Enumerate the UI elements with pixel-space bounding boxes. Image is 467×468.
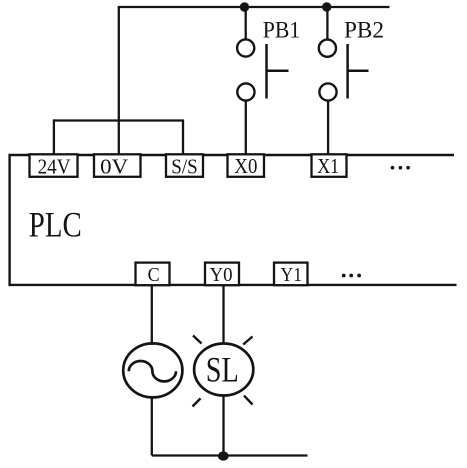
wire: lamp SL to bottom return bus bbox=[222, 396, 224, 456]
wire: vertical drop from top bus to 0V terminal bbox=[118, 7, 120, 156]
wire: AC source to bottom return bus bbox=[151, 397, 153, 455]
svg-text:S/S: S/S bbox=[171, 154, 198, 178]
terminal Y0 bbox=[205, 263, 239, 286]
terminal Y1 bbox=[274, 263, 308, 286]
junction: top bus at PB2 bbox=[322, 2, 331, 11]
svg-text:C: C bbox=[148, 264, 160, 286]
ellipsis: more input terminals bbox=[391, 166, 410, 170]
PLC enclosure bbox=[10, 155, 457, 285]
wire: bottom return bus bbox=[152, 454, 308, 456]
wire: stub from connector bus to 24V terminal bbox=[53, 119, 55, 156]
svg-text:PB2: PB2 bbox=[344, 17, 384, 42]
wire: terminal C to AC source bbox=[151, 286, 153, 345]
svg-text:SL: SL bbox=[206, 350, 239, 390]
terminal S/S bbox=[166, 154, 203, 178]
svg-text:Y0: Y0 bbox=[210, 264, 233, 286]
wire: stub from connector bus to S/S terminal bbox=[182, 119, 184, 156]
pushbutton PB1 bbox=[237, 7, 288, 101]
svg-text:PB1: PB1 bbox=[263, 17, 301, 42]
terminal X0 bbox=[228, 154, 265, 178]
svg-text:Y1: Y1 bbox=[281, 264, 303, 286]
junction: top bus at PB1 bbox=[240, 2, 249, 11]
svg-text:X0: X0 bbox=[234, 154, 257, 178]
ellipsis: more output terminals bbox=[342, 274, 361, 278]
svg-text:24V: 24V bbox=[38, 154, 71, 178]
svg-text:X1: X1 bbox=[317, 154, 339, 178]
terminal X1 bbox=[312, 154, 347, 178]
pushbutton PB2 bbox=[319, 7, 369, 101]
wire: terminal Y0 to lamp SL bbox=[222, 286, 224, 345]
wire: PB2 to terminal X1 bbox=[327, 101, 329, 156]
svg-text:0V: 0V bbox=[100, 154, 128, 178]
lamp SL bbox=[193, 336, 254, 407]
AC source bbox=[123, 343, 182, 397]
wire: PB1 to terminal X0 bbox=[245, 101, 247, 156]
terminal 24V bbox=[30, 154, 78, 178]
terminal C bbox=[136, 263, 170, 286]
wire: top supply bus bbox=[118, 6, 390, 8]
terminal 0V bbox=[94, 154, 141, 178]
svg-text:PLC: PLC bbox=[29, 205, 82, 245]
wire: connector bus over 24V / 0V / S/S bbox=[54, 119, 184, 121]
junction: bottom bus at SL bbox=[218, 451, 229, 460]
